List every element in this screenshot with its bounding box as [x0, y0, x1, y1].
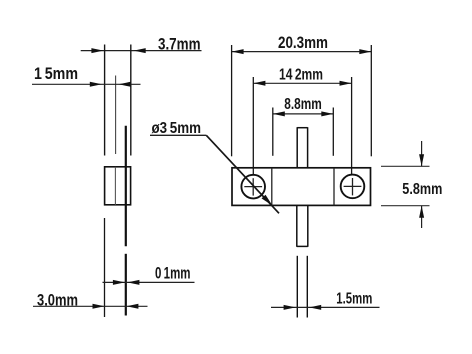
top view: 5.8mm extension line top	[381, 165, 430, 167]
side view: extension line below flange left face	[104, 218, 106, 317]
top view: hole diameter leader line	[206, 135, 279, 213]
svg-text:3.7mm: 3.7mm	[158, 36, 201, 54]
top view: 8.8mm dimension line	[273, 111, 334, 116]
top view: hole diameter callout underline	[150, 134, 206, 136]
svg-text:ø3 5mm: ø3 5mm	[152, 120, 202, 137]
side view: package outline rectangle	[105, 167, 131, 205]
svg-text:5.8mm: 5.8mm	[402, 181, 442, 198]
top view: 14.2mm dimension line	[253, 81, 351, 86]
top view: lead tab lower	[297, 205, 308, 246]
side view: extension line cap face	[115, 76, 117, 155]
top view: extension line 20.3 left	[231, 45, 233, 156]
svg-text:0 1mm: 0 1mm	[155, 265, 191, 283]
side view: lead lower segment	[125, 254, 127, 316]
side view: 3.0mm dimension line	[33, 304, 148, 309]
top view: 1.5mm lead width dimension line	[271, 305, 380, 310]
top view: 5.8mm dimension arrows	[419, 141, 424, 228]
svg-text:1.5mm: 1.5mm	[336, 290, 372, 307]
svg-text:14 2mm: 14 2mm	[279, 66, 323, 83]
top view: mounting hole right	[341, 175, 365, 199]
top view: lead lower continuation right edge	[306, 256, 308, 318]
top view: extension line 8.8 left	[272, 108, 274, 156]
svg-text:8.8mm: 8.8mm	[284, 96, 322, 113]
side view: 1.5mm dimension line	[32, 82, 141, 87]
top view: extension line 20.3 right	[370, 45, 372, 156]
top view: mounting hole left	[241, 175, 265, 199]
side view: lead upper segment	[125, 126, 127, 247]
side view: 0.1mm dimension line	[103, 280, 195, 285]
top view: 20.3mm dimension line	[232, 49, 372, 54]
top view: extension line 14.2 left	[252, 77, 254, 175]
top view: lead lower continuation left edge	[296, 256, 298, 318]
top view: 5.8mm extension line bottom	[381, 205, 430, 207]
top view: hole diameter leader arrowhead	[262, 195, 273, 206]
svg-text:3.0mm: 3.0mm	[37, 291, 78, 309]
side view: cap parting line	[114, 167, 116, 205]
svg-text:20.3mm: 20.3mm	[278, 34, 328, 52]
top view: body parting line right	[333, 168, 335, 206]
top view: body parting line left	[271, 168, 273, 206]
top view: extension line 8.8 right	[332, 108, 334, 156]
top view: extension line 14.2 right	[351, 77, 353, 175]
top view: flange outline	[232, 168, 371, 206]
side view: 3.7mm dimension line	[81, 48, 202, 53]
top view: lead tab upper	[297, 127, 307, 168]
svg-text:1 5mm: 1 5mm	[34, 65, 78, 83]
side view: extension line flange left face	[104, 45, 106, 156]
side view: extension line flange right face	[130, 45, 132, 156]
